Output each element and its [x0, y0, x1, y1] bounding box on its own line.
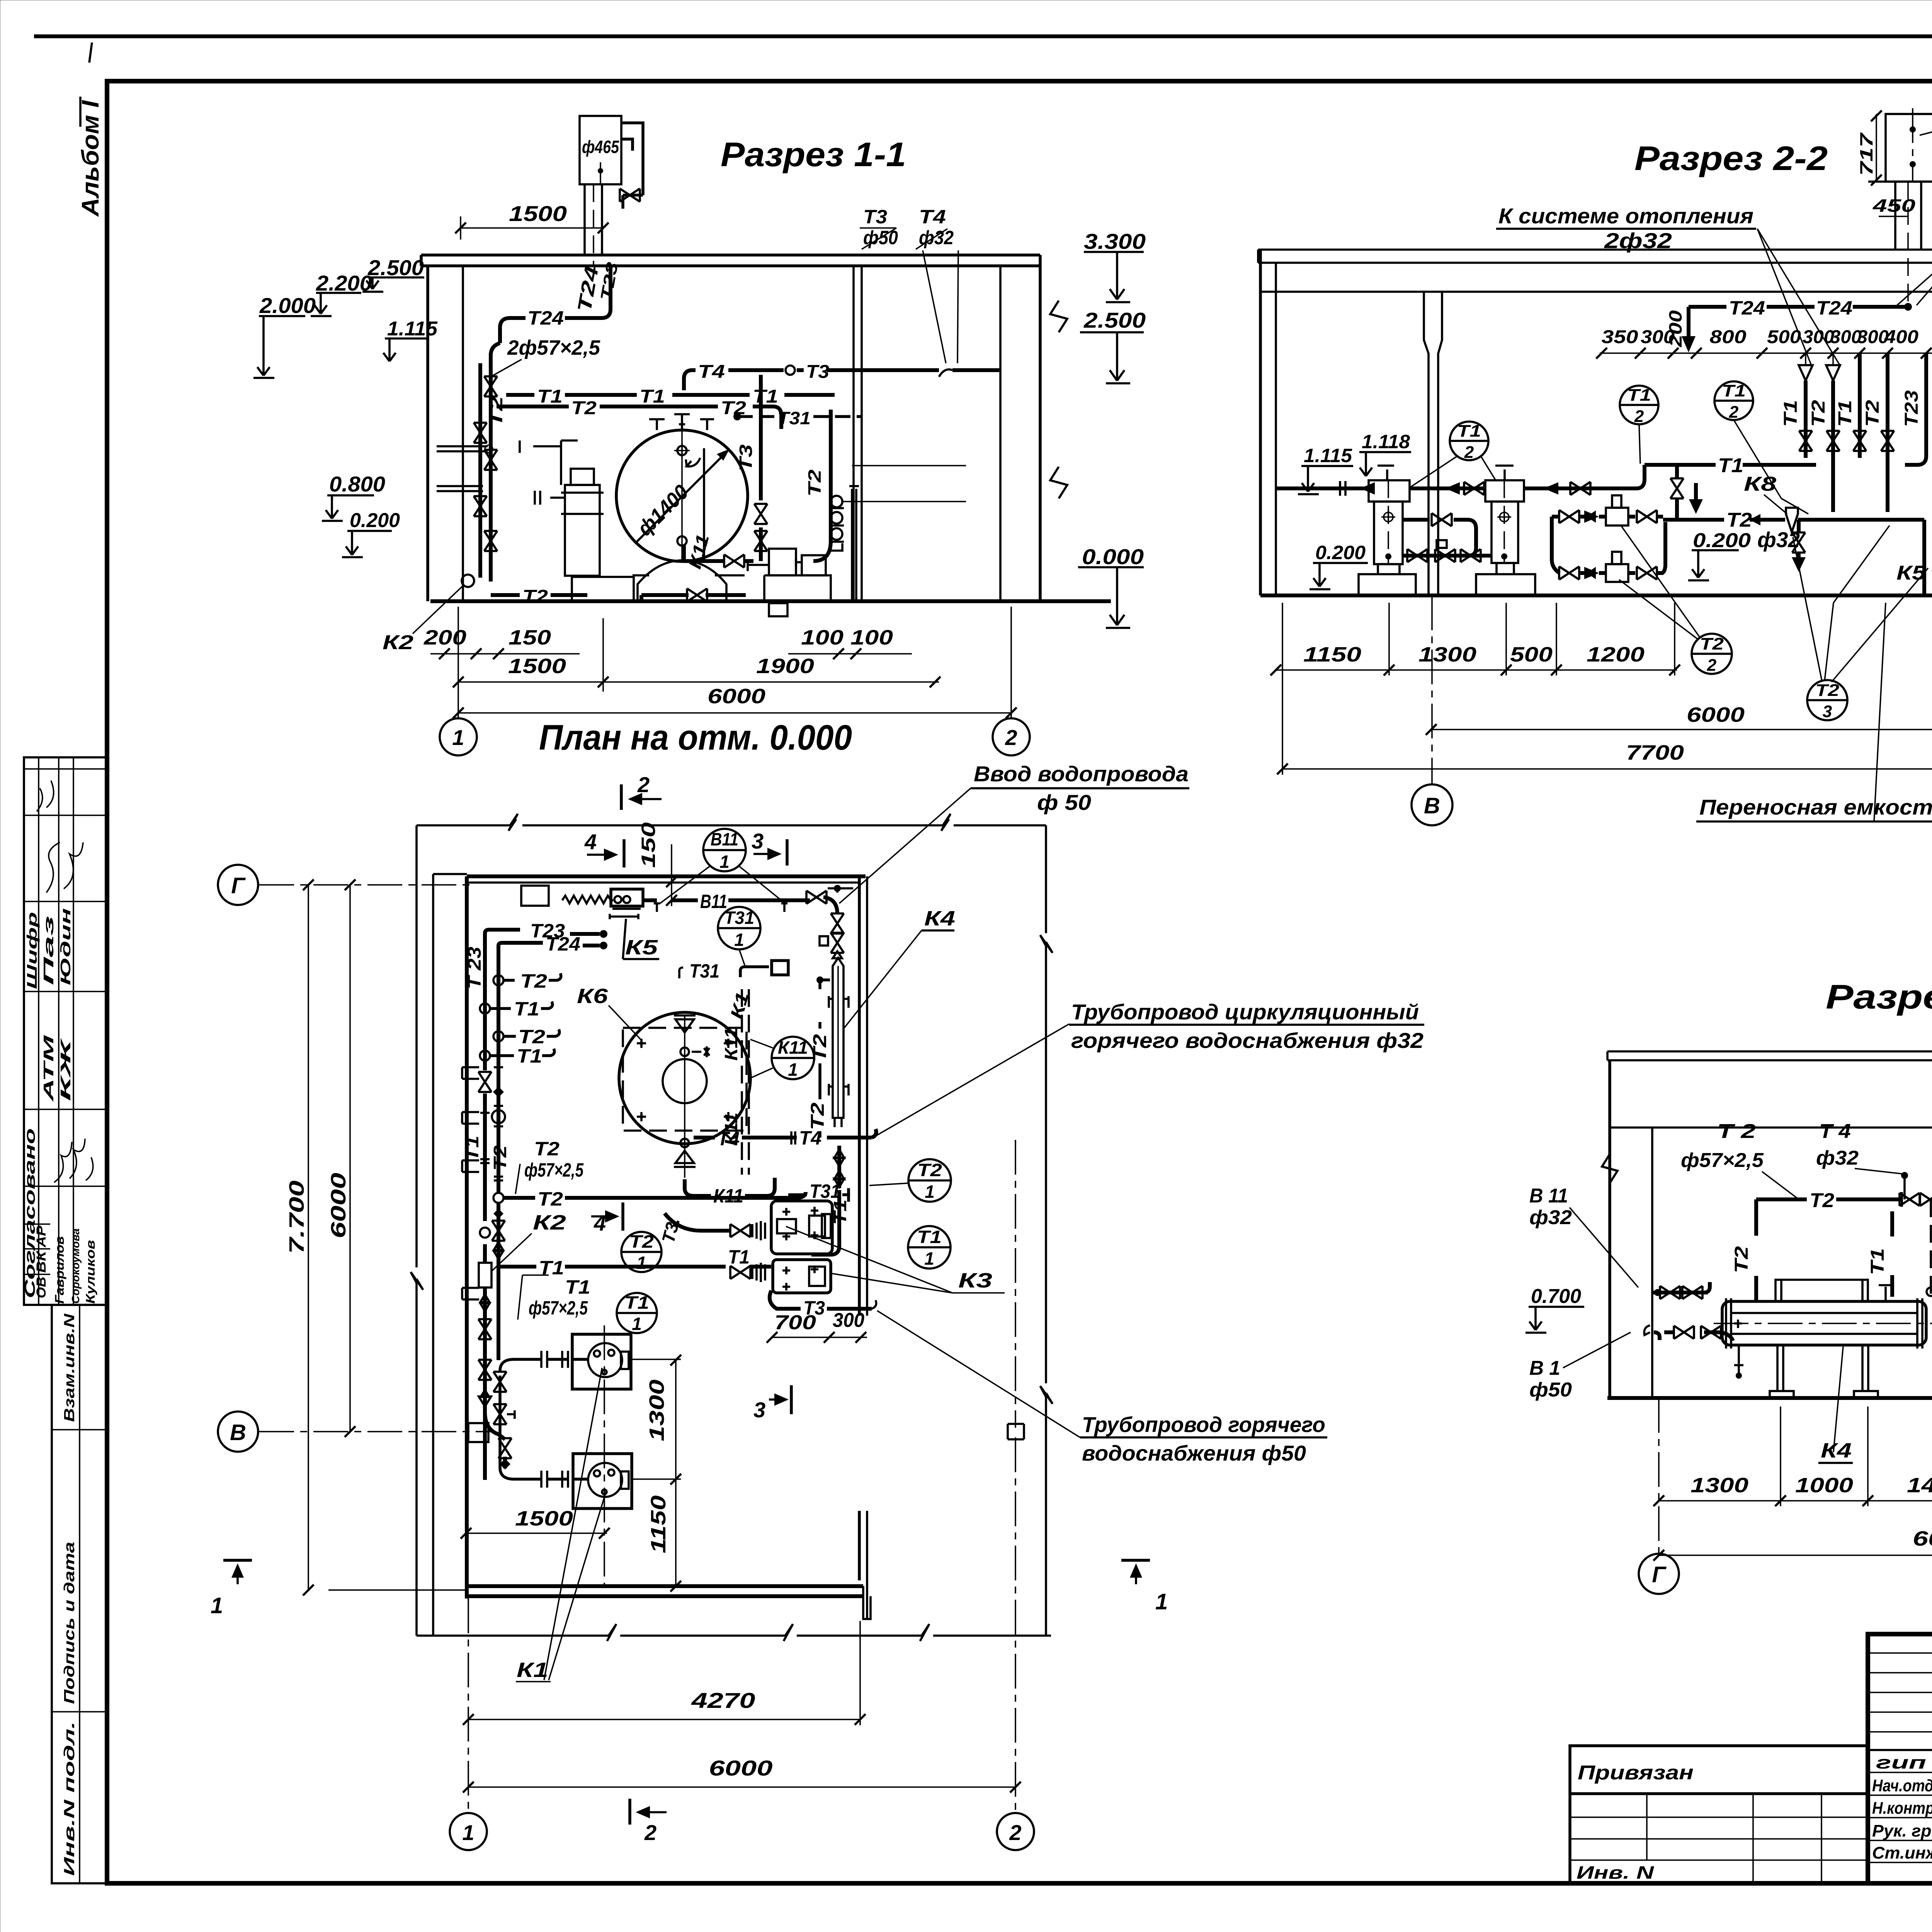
- grid bubble V: [1431, 595, 1433, 784]
- circle T2/1 left: [621, 1232, 662, 1272]
- svg-text:В11: В11: [700, 891, 727, 912]
- svg-text:КЖ: КЖ: [58, 1037, 73, 1101]
- svg-text:В: В: [230, 1420, 246, 1445]
- B11 pipe run: [643, 897, 837, 914]
- svg-text:Т1: Т1: [1457, 422, 1481, 440]
- svg-text:Т2: Т2: [917, 1160, 942, 1180]
- svg-text:1300: 1300: [1418, 643, 1476, 666]
- ceiling slab: [1258, 250, 1932, 292]
- dim row over manifold: [1600, 352, 1932, 354]
- svg-text:ф50: ф50: [1529, 1379, 1572, 1401]
- svg-text:Т1: Т1: [624, 1293, 649, 1313]
- svg-text:3: 3: [753, 1398, 765, 1422]
- svg-text:1500: 1500: [515, 1507, 573, 1530]
- svg-text:6000: 6000: [1913, 1527, 1932, 1550]
- svg-text:План на отм. 0.000: План на отм. 0.000: [539, 718, 852, 757]
- zigzag spring on B11: [562, 896, 613, 903]
- svg-text:Т4: Т4: [717, 1128, 740, 1150]
- svg-text:ф32: ф32: [919, 227, 954, 248]
- niche top left wall: [521, 886, 549, 906]
- svg-text:Шифр: Шифр: [24, 912, 40, 989]
- section mark 1 left: [223, 1559, 252, 1562]
- circle T1/1 left: [617, 1293, 657, 1333]
- valves below K2: [480, 1294, 490, 1311]
- svg-text:2: 2: [637, 772, 650, 797]
- PLANVIEW: [211, 718, 1424, 1850]
- svg-text:Инв.N подл.: Инв.N подл.: [61, 1721, 78, 1876]
- left riser T2: [497, 949, 500, 1360]
- right wall: [999, 266, 1002, 601]
- svg-text:3: 3: [752, 829, 764, 853]
- svg-text:Т31: Т31: [777, 408, 811, 428]
- svg-text:Т2: Т2: [808, 1102, 828, 1130]
- svg-text:2.000: 2.000: [259, 293, 316, 318]
- T2 riser and run: [1754, 1199, 1758, 1301]
- svg-text:300: 300: [1803, 327, 1834, 347]
- SECTION22: [1258, 108, 1932, 830]
- svg-text:4: 4: [584, 830, 597, 854]
- svg-text:3: 3: [1823, 702, 1832, 721]
- svg-text:Привязан: Привязан: [1578, 1762, 1694, 1784]
- svg-text:4: 4: [594, 1211, 606, 1235]
- svg-text:Т 4: Т 4: [1819, 1120, 1851, 1143]
- svg-text:Трубопровод циркуляционный: Трубопровод циркуляционный: [1071, 1000, 1419, 1024]
- svg-text:К1: К1: [517, 1658, 548, 1682]
- T4 stub: [1903, 1175, 1906, 1199]
- tank top fittings: [649, 414, 714, 430]
- svg-text:Т 2: Т 2: [1717, 1120, 1756, 1143]
- svg-text:0.800: 0.800: [329, 472, 385, 496]
- svg-text:Т24: Т24: [1816, 297, 1852, 319]
- svg-text:ф57×2,5: ф57×2,5: [529, 1297, 588, 1319]
- svg-text:1450: 1450: [1907, 1474, 1932, 1497]
- svg-text:7700: 7700: [1626, 741, 1684, 764]
- floor: [1260, 594, 1932, 597]
- svg-text:В 11: В 11: [1529, 1185, 1568, 1207]
- taps with circles: [493, 975, 503, 985]
- T23 T24 header labels: [485, 930, 520, 937]
- svg-text:Т1: Т1: [728, 1246, 750, 1268]
- svg-text:1: 1: [636, 1253, 646, 1273]
- svg-text:К4: К4: [924, 907, 955, 930]
- boiler 1: [1369, 480, 1410, 502]
- svg-text:К11: К11: [713, 1185, 743, 1207]
- tank circle: [616, 430, 748, 561]
- svg-text:К11: К11: [684, 532, 713, 571]
- leaders to heating risers: [1757, 229, 1840, 366]
- heat exchanger K4: [1722, 1301, 1926, 1345]
- SECTION33: [1526, 978, 1932, 1605]
- svg-text:Т24: Т24: [1729, 297, 1765, 319]
- svg-text:6000: 6000: [709, 1756, 773, 1780]
- svg-text:2.500: 2.500: [367, 255, 424, 280]
- svg-text:Разрез 3-3: Разрез 3-3: [1826, 978, 1932, 1016]
- signatures squiggles: [46, 842, 83, 893]
- svg-text:Т1: Т1: [514, 998, 539, 1020]
- tank saddle: [633, 560, 745, 601]
- svg-text:150: 150: [638, 822, 659, 868]
- circle T31/1: [718, 907, 760, 949]
- exchanger stand frame: [1776, 1280, 1868, 1301]
- svg-text:Ввод водопровода: Ввод водопровода: [974, 762, 1189, 786]
- svg-text:1: 1: [632, 1314, 642, 1334]
- 717 dim rotated: [1876, 114, 1877, 182]
- svg-text:1200: 1200: [1587, 643, 1645, 666]
- svg-text:Т2: Т2: [1815, 681, 1840, 700]
- main title block outline: [1868, 1634, 1932, 1883]
- ceiling slab: [421, 255, 1040, 266]
- pump K1 unit2: [573, 1454, 632, 1509]
- dim 1300 1150 rotated: [675, 1359, 677, 1588]
- G_LEFTSTRIP: [22, 757, 107, 1883]
- svg-text:К3: К3: [958, 1269, 992, 1292]
- T1 vertical into exchangers: [837, 1146, 841, 1188]
- svg-text:Т2: Т2: [486, 396, 506, 427]
- right riser from B11: [828, 888, 853, 893]
- svg-text:Т1: Т1: [917, 1227, 942, 1247]
- break boundary top: [417, 814, 1046, 831]
- left riser T1: [483, 937, 487, 1480]
- svg-text:7.700: 7.700: [285, 1180, 308, 1254]
- column bubble 1: [468, 1599, 469, 1813]
- svg-text:Т2: Т2: [1700, 634, 1724, 653]
- svg-text:Подпись и дата: Подпись и дата: [61, 1542, 78, 1704]
- svg-text:0.200: 0.200: [350, 509, 400, 532]
- svg-text:Т31: Т31: [724, 908, 754, 928]
- T3 riser right: [759, 375, 763, 561]
- svg-text:К2: К2: [383, 631, 413, 654]
- svg-text:6000: 6000: [1687, 703, 1745, 726]
- niche at grid V: [468, 1423, 488, 1442]
- svg-text:1300: 1300: [645, 1379, 668, 1441]
- svg-text:Трубопровод горячего: Трубопровод горячего: [1082, 1412, 1325, 1437]
- svg-text:Юдин: Юдин: [58, 908, 73, 985]
- svg-text:1.115: 1.115: [1304, 445, 1352, 466]
- svg-text:Т1: Т1: [639, 386, 665, 407]
- svg-text:ОВ: ОВ: [34, 1277, 49, 1298]
- tank manholes: [677, 446, 687, 455]
- K11 bottom elbow: [685, 1179, 711, 1196]
- svg-text:Гаврилов: Гаврилов: [53, 1236, 66, 1304]
- svg-text:2: 2: [1707, 656, 1717, 675]
- svg-text:АТМ: АТМ: [41, 1035, 56, 1102]
- upper signature table: [24, 757, 107, 1305]
- circle T1/1 right: [908, 1226, 951, 1269]
- pump centerline: [604, 1325, 605, 1584]
- svg-text:К11: К11: [721, 1027, 741, 1061]
- svg-text:350: 350: [1602, 327, 1638, 347]
- svg-text:Сорокоумова: Сорокоумова: [70, 1228, 82, 1304]
- svg-text:К8: К8: [1744, 473, 1776, 495]
- T4 run: [684, 1136, 686, 1139]
- svg-text:В 1: В 1: [1529, 1357, 1560, 1379]
- wall pipe brackets: [462, 1067, 479, 1079]
- T3 inlet to unit1: [665, 1213, 730, 1231]
- pipe anchors: [654, 903, 787, 912]
- svg-text:1000: 1000: [1795, 1474, 1853, 1497]
- svg-text:Разрез 1-1: Разрез 1-1: [721, 135, 906, 173]
- svg-text:Т3.: Т3.: [658, 1215, 684, 1245]
- pump2 suction piping: [500, 1376, 588, 1479]
- svg-text:Разрез 2-2: Разрез 2-2: [1634, 139, 1828, 177]
- column bubble 2: [1015, 1140, 1016, 1813]
- svg-text:6000: 6000: [327, 1173, 350, 1238]
- svg-text:400: 400: [1884, 327, 1918, 347]
- pump K1 unit1: [572, 1334, 631, 1389]
- pump1 suction piping: [500, 1359, 588, 1371]
- svg-text:1: 1: [452, 725, 464, 750]
- svg-text:Т2: Т2: [1810, 1189, 1834, 1212]
- svg-text:Т2: Т2: [537, 1188, 563, 1210]
- svg-text:2.200: 2.200: [316, 271, 372, 295]
- svg-text:1: 1: [924, 1248, 934, 1269]
- svg-text:К4: К4: [1821, 1439, 1852, 1462]
- svg-text:2ф57×2,5: 2ф57×2,5: [507, 336, 600, 359]
- T23 riser: [1905, 353, 1926, 465]
- svg-text:Нач.отд.: Нач.отд.: [1872, 1776, 1932, 1795]
- grid line G: [259, 884, 469, 886]
- svg-text:Т2: Т2: [571, 398, 597, 418]
- svg-text:ф57×2,5: ф57×2,5: [1681, 1149, 1764, 1172]
- T31 dashed riser: [1930, 1199, 1932, 1301]
- circle label T2/3: [1807, 680, 1847, 720]
- svg-text:1500: 1500: [508, 655, 566, 678]
- svg-text:2: 2: [1009, 1820, 1021, 1845]
- K11 vertical dashed pipes: [742, 989, 749, 1175]
- svg-text:1: 1: [925, 1182, 935, 1202]
- T1 vertical dashed: [1890, 1211, 1894, 1297]
- svg-text:Т24: Т24: [527, 307, 564, 329]
- pump unit right of tank: [769, 549, 796, 575]
- legs: [1777, 1345, 1868, 1391]
- drain pipe and valve at floor: [641, 545, 753, 601]
- B1 lower pipe: [1654, 1332, 1733, 1341]
- svg-text:Т2: Т2: [629, 1231, 654, 1252]
- svg-text:1150: 1150: [1303, 643, 1361, 666]
- svg-text:Т1: Т1: [1835, 400, 1855, 427]
- svg-text:К5: К5: [1896, 562, 1926, 584]
- svg-text:Т3: Т3: [863, 206, 887, 228]
- svg-text:ф32: ф32: [1529, 1206, 1572, 1229]
- svg-text:300: 300: [1857, 327, 1889, 347]
- svg-text:Ст.инж: Ст.инж: [1872, 1844, 1932, 1862]
- svg-text:Т1: Т1: [1722, 381, 1746, 400]
- circle T2/1 right: [908, 1159, 951, 1202]
- T2 main run: [493, 1193, 503, 1203]
- svg-text:2: 2: [1005, 725, 1017, 750]
- svg-text:К11: К11: [778, 1037, 808, 1058]
- svg-text:0.700: 0.700: [1531, 1285, 1581, 1308]
- lower strip: [52, 1305, 107, 1883]
- K2 box on riser: [479, 1263, 492, 1287]
- valves on left risers: [484, 376, 497, 396]
- svg-text:горячего водоснабжения ф32: горячего водоснабжения ф32: [1071, 1028, 1423, 1053]
- wall stubs left: [437, 446, 488, 491]
- svg-text:ф 50: ф 50: [1037, 790, 1091, 815]
- svg-text:1: 1: [211, 1593, 223, 1618]
- K2 leader bottom left: [462, 575, 474, 587]
- chimney risers to ceiling: [1894, 182, 1896, 250]
- svg-text:4270: 4270: [691, 1688, 755, 1713]
- chimney stack: [580, 116, 621, 184]
- heat exchanger K3 unit2: [773, 1260, 831, 1293]
- svg-text:К5: К5: [625, 936, 658, 959]
- leader to circulation text: [876, 1024, 1069, 1136]
- floor: [1607, 1396, 1932, 1400]
- svg-text:Т2: Т2: [804, 469, 825, 497]
- svg-text:0.200: 0.200: [1693, 529, 1751, 552]
- svg-text:Г: Г: [1652, 1562, 1667, 1587]
- svg-text:300: 300: [833, 1309, 864, 1332]
- svg-text:2: 2: [1464, 443, 1474, 462]
- svg-text:1300: 1300: [1690, 1474, 1748, 1497]
- svg-text:2.500: 2.500: [1083, 308, 1146, 332]
- svg-text:Т1: Т1: [565, 1276, 590, 1298]
- svg-text:ф32: ф32: [1816, 1147, 1859, 1169]
- heat exchanger K3 unit1: [771, 1201, 832, 1254]
- svg-text:2: 2: [1634, 407, 1644, 426]
- svg-text:1: 1: [1155, 1589, 1168, 1614]
- svg-text:200: 200: [423, 626, 466, 649]
- svg-text:Т4: Т4: [799, 1127, 821, 1149]
- svg-text:В: В: [1424, 793, 1440, 818]
- svg-text:Т24: Т24: [546, 933, 580, 955]
- svg-text:Т4: Т4: [919, 206, 946, 228]
- svg-text:Куликов: Куликов: [83, 1240, 97, 1304]
- svg-text:Т2: Т2: [1862, 400, 1883, 427]
- tank bottom funnel: [680, 1139, 689, 1147]
- svg-text:Т2: Т2: [518, 1026, 545, 1048]
- grid bubble 2: [993, 718, 1030, 755]
- svg-text:Т2: Т2: [522, 587, 548, 607]
- svg-text:1.118: 1.118: [1362, 431, 1410, 452]
- svg-text:Т1: Т1: [462, 1136, 482, 1161]
- svg-text:1.115: 1.115: [387, 318, 438, 340]
- svg-text:100: 100: [850, 626, 893, 649]
- svg-text:Т1: Т1: [830, 1199, 850, 1225]
- left wall: [426, 266, 429, 601]
- svg-text:Взам.инв.N: Взам.инв.N: [61, 1313, 78, 1422]
- pipe T24 run: [500, 266, 611, 343]
- circle label T2/2: [1692, 634, 1732, 674]
- svg-text:Т2: Т2: [490, 1145, 510, 1171]
- svg-text:500: 500: [1767, 327, 1801, 347]
- boiler 2: [1485, 480, 1524, 502]
- grid bubble V: [218, 1412, 258, 1452]
- svg-text:1: 1: [788, 1060, 798, 1080]
- svg-text:6000: 6000: [707, 685, 765, 708]
- T2 riser along K4: [816, 976, 823, 983]
- svg-text:Т1: Т1: [517, 1045, 542, 1067]
- svg-text:Т2: Т2: [520, 970, 547, 992]
- grid bubble G: [1658, 1398, 1660, 1554]
- left wall: [1259, 250, 1262, 595]
- svg-text:Н.контр.: Н.контр.: [1872, 1799, 1932, 1818]
- svg-text:0.000: 0.000: [1082, 544, 1144, 569]
- svg-text:Т4: Т4: [698, 362, 725, 382]
- svg-text:ф57×2,5: ф57×2,5: [524, 1159, 584, 1181]
- svg-text:К6: К6: [577, 985, 608, 1008]
- svg-text:500: 500: [1510, 643, 1553, 666]
- svg-text:2ф32: 2ф32: [1604, 228, 1672, 253]
- ceiling slab: [1607, 1051, 1932, 1128]
- T23 riser valve over T2: [1675, 465, 1679, 520]
- svg-text:0.200: 0.200: [1315, 542, 1366, 563]
- break boundary bottom: [417, 1624, 1051, 1641]
- boiler loop piping: [1403, 520, 1492, 556]
- valves and fittings on left risers: [478, 1072, 492, 1092]
- svg-text:1150: 1150: [647, 1495, 670, 1553]
- svg-text:Т1: Т1: [1627, 386, 1651, 405]
- T1 run: [506, 393, 835, 397]
- grid bubble 1: [440, 718, 477, 755]
- svg-text:150: 150: [509, 626, 551, 649]
- svg-text:1: 1: [462, 1820, 474, 1845]
- T2 run: [497, 406, 781, 429]
- svg-text:3.300: 3.300: [1084, 229, 1146, 253]
- svg-text:ф1400: ф1400: [633, 480, 693, 541]
- svg-text:Переносная емкость: Переносная емкость: [1699, 795, 1932, 819]
- svg-text:Т31: Т31: [689, 960, 719, 982]
- circle B11/1: [703, 829, 746, 871]
- svg-text:Т23: Т23: [1901, 390, 1922, 427]
- grid line V: [259, 1431, 491, 1432]
- G_TITLEBLOCK: [1570, 1634, 1932, 1920]
- T2 drain with valve: [1797, 520, 1801, 564]
- left nozzle details: [1734, 1345, 1743, 1376]
- svg-text:К системе отопления: К системе отопления: [1498, 204, 1753, 228]
- svg-text:100: 100: [801, 626, 844, 649]
- svg-text:200: 200: [1665, 310, 1685, 347]
- svg-text:Т2: Т2: [534, 1138, 560, 1160]
- trim corner tick: [89, 43, 92, 63]
- svg-text:Т 23: Т 23: [464, 947, 485, 989]
- svg-text:Т3: Т3: [806, 362, 829, 382]
- svg-text:Т1: Т1: [537, 386, 563, 407]
- section mark 1 right: [1121, 1559, 1150, 1562]
- B11 valves left: [1652, 1291, 1708, 1294]
- trim border top: [34, 34, 1932, 38]
- svg-text:717: 717: [1856, 132, 1876, 176]
- svg-text:Т2: Т2: [1726, 509, 1752, 531]
- bottom wall: [467, 1584, 863, 1588]
- valves between risers and pumps: [478, 1360, 492, 1380]
- svg-text:Т2: Т2: [1731, 1246, 1752, 1273]
- svg-text:Т1: Т1: [1867, 1248, 1888, 1275]
- tank K6 plan: [619, 1012, 750, 1144]
- svg-text:Т1: Т1: [1781, 400, 1801, 427]
- svg-text:1500: 1500: [509, 201, 567, 226]
- break marks right wall: [1050, 301, 1067, 498]
- T1 top run boilers: [1276, 465, 1816, 488]
- svg-text:Т3: Т3: [736, 444, 756, 471]
- T31 label with funnel box: [679, 968, 683, 978]
- lower manifold row lower: [1552, 522, 1665, 573]
- svg-text:1900: 1900: [756, 655, 814, 678]
- svg-text:Т2: Т2: [1808, 400, 1829, 427]
- svg-text:1: 1: [719, 852, 730, 872]
- attachment table left: [1570, 1746, 1868, 1883]
- break boundary left: [411, 825, 423, 1636]
- T1 main run: [497, 1265, 771, 1269]
- svg-text:2: 2: [644, 1820, 656, 1845]
- floor: [430, 599, 1111, 603]
- svg-text:700: 700: [774, 1311, 816, 1334]
- circle label T1/2 mid: [1620, 386, 1658, 424]
- svg-text:800: 800: [1710, 327, 1747, 347]
- T2 main run: [1663, 520, 1924, 595]
- gauge stand: [831, 496, 842, 507]
